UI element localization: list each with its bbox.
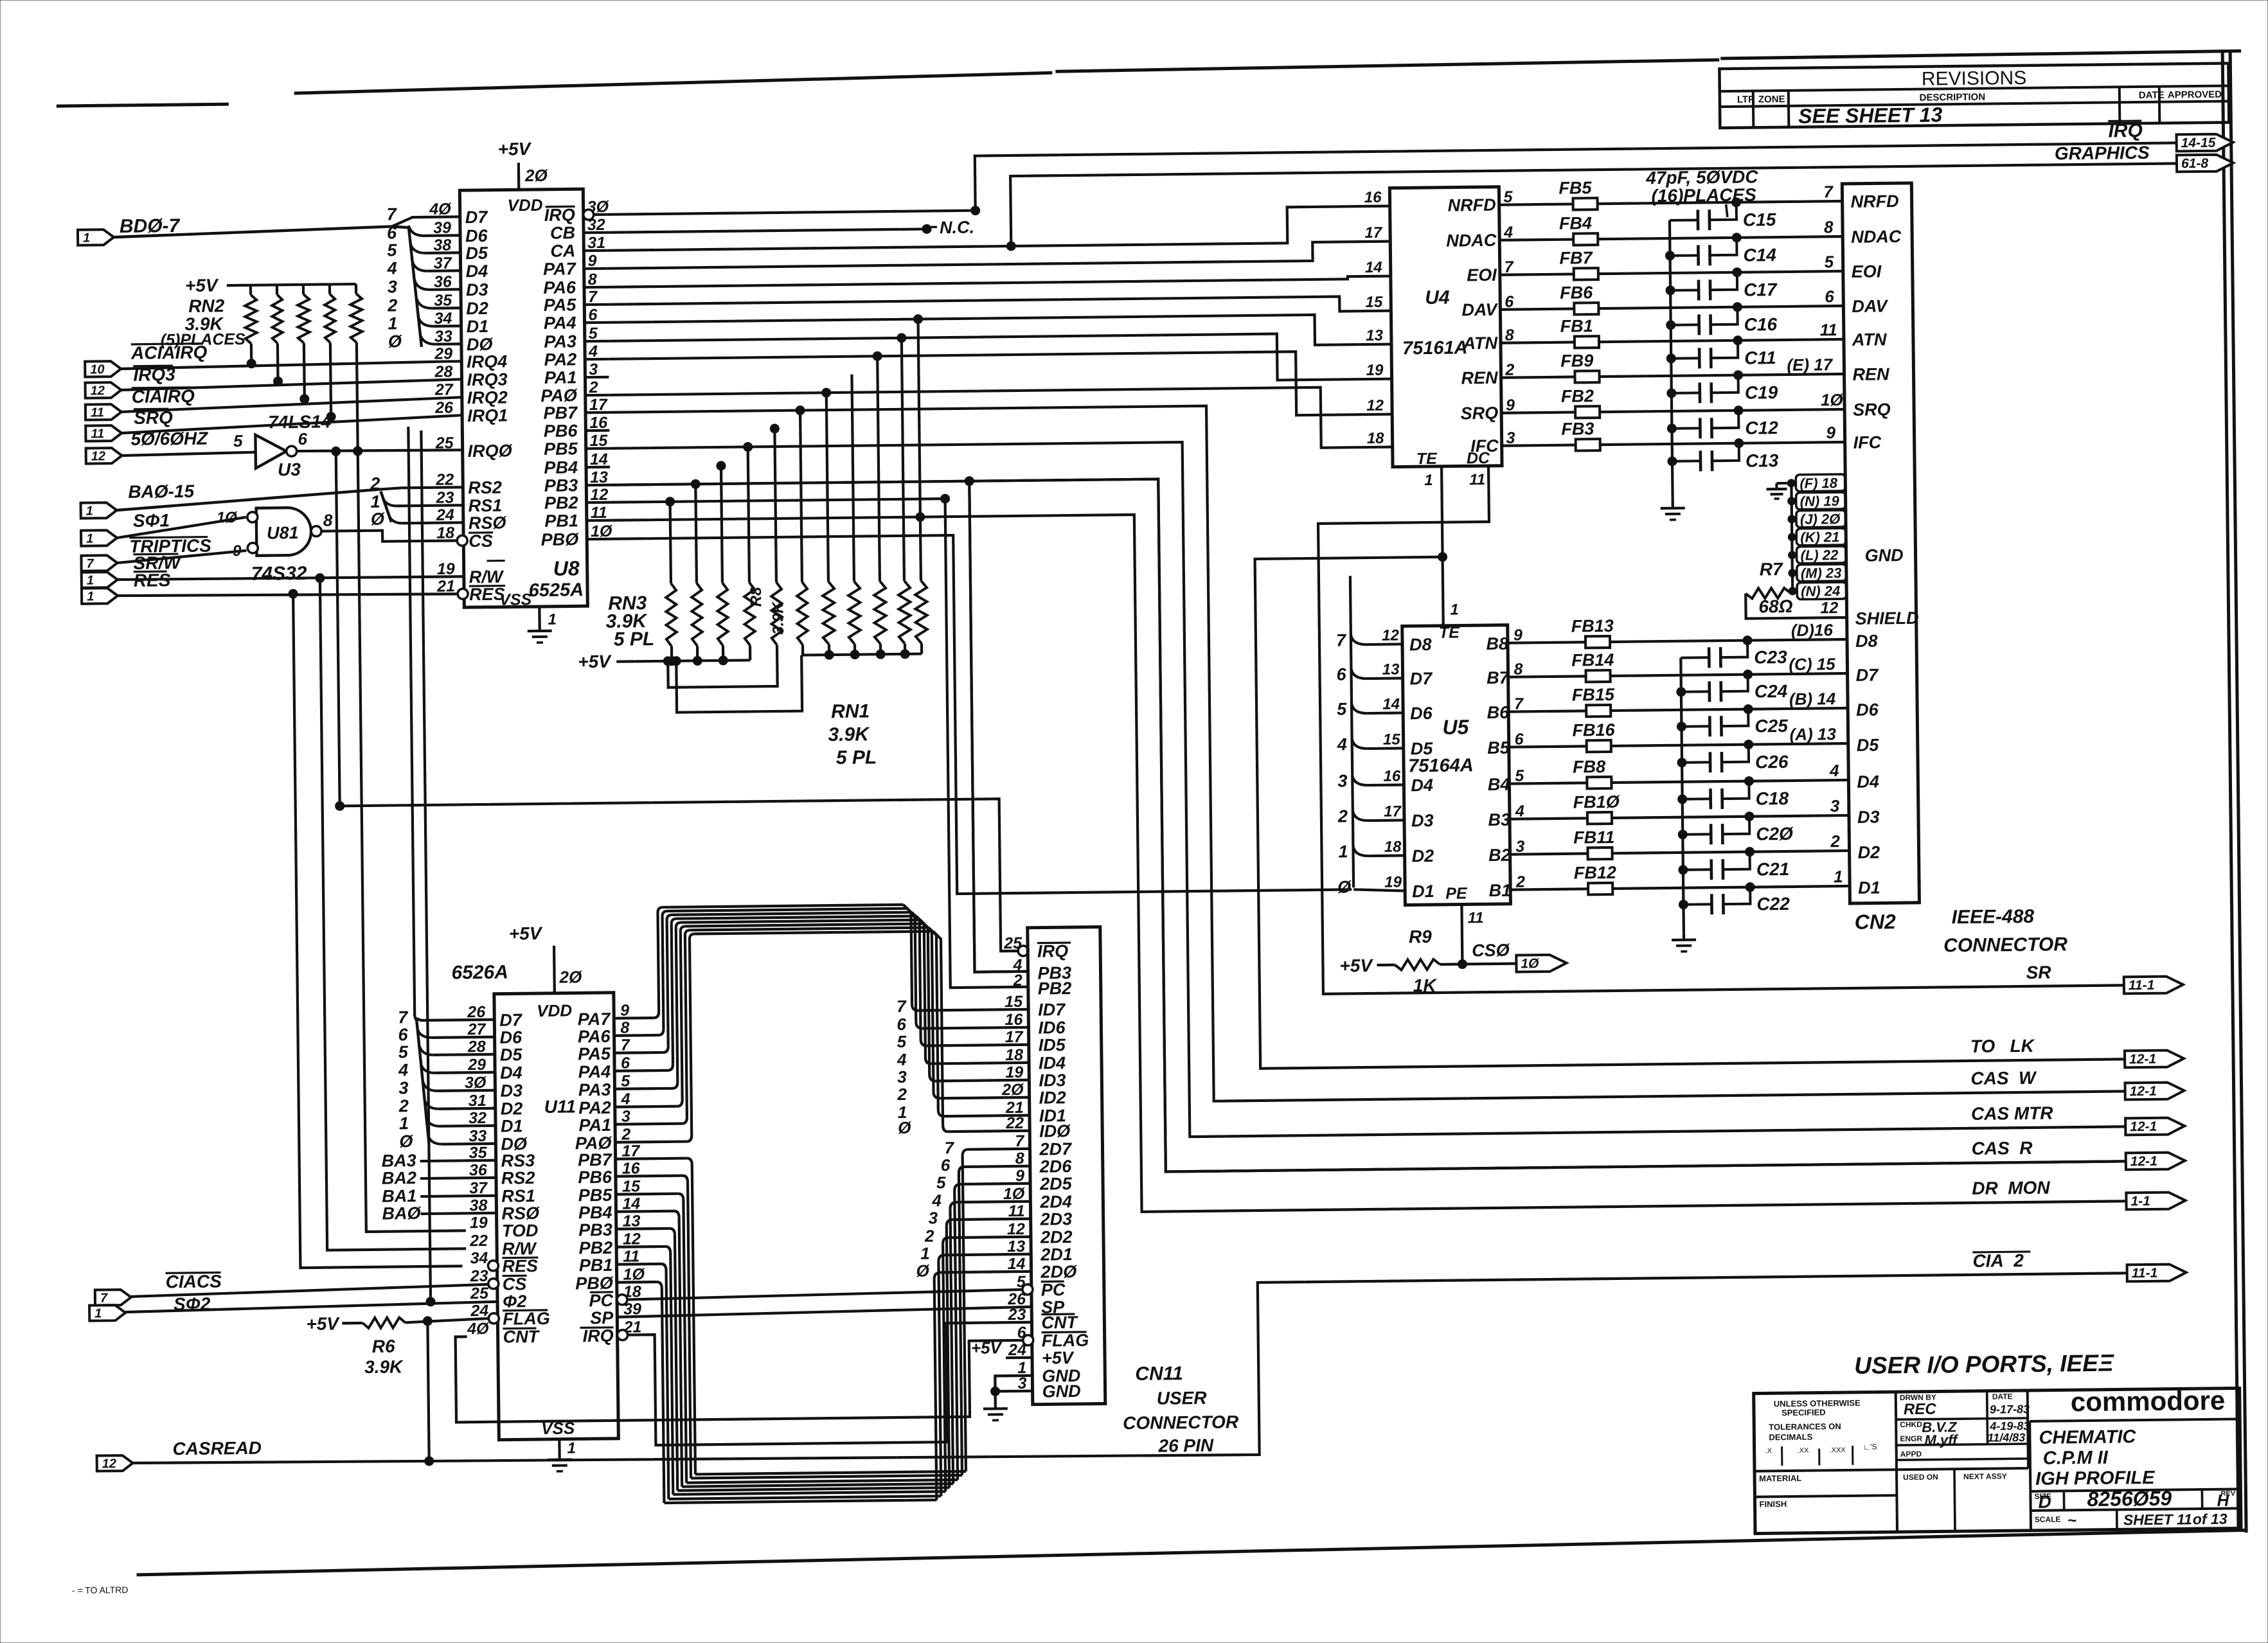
svg-text:C15: C15 xyxy=(1743,209,1776,230)
capacitor C24 xyxy=(1681,690,1710,693)
svg-text:26: 26 xyxy=(434,398,454,416)
svg-text:FB8: FB8 xyxy=(1573,757,1605,777)
svg-text:DESCRIPTION: DESCRIPTION xyxy=(1920,92,1986,103)
svg-text:.XX: .XX xyxy=(1798,1447,1810,1455)
wire PA6 to U4 EOI pin 14 xyxy=(608,276,1391,287)
svg-text:11-1: 11-1 xyxy=(2129,978,2155,993)
svg-text:ID7: ID7 xyxy=(1038,1000,1066,1019)
svg-text:12: 12 xyxy=(1382,627,1400,644)
svg-text:VDD: VDD xyxy=(507,195,542,215)
wire U11 IRQ to CN11 CNT xyxy=(627,1322,1033,1446)
svg-text:DR MON: DR MON xyxy=(1972,1178,2050,1198)
svg-text:CIAIRQ: CIAIRQ xyxy=(132,386,195,407)
svg-text:FB3: FB3 xyxy=(1561,419,1594,439)
title block tolerance box xyxy=(1896,1392,1897,1532)
svg-text:RS3: RS3 xyxy=(501,1151,535,1171)
svg-text:C2Ø: C2Ø xyxy=(1756,824,1794,844)
svg-text:(C) 15: (C) 15 xyxy=(1789,654,1835,674)
svg-text:1: 1 xyxy=(548,611,557,628)
svg-text:25: 25 xyxy=(435,434,454,452)
svg-text:~: ~ xyxy=(2067,1512,2076,1529)
wire PB3 to CAS R net and CN11 PB3 xyxy=(610,468,2126,1177)
net flag 50/60HZ (sheet 12) xyxy=(86,448,122,464)
wire PA0 to U4 IFC pin 18 xyxy=(609,387,1393,456)
ferrite bead FB10 xyxy=(1510,818,1587,819)
svg-text:C17: C17 xyxy=(1744,280,1778,300)
pull-up resistor RN1 column 11 xyxy=(918,319,921,581)
svg-text:∟'S: ∟'S xyxy=(1863,1443,1877,1452)
wire TRIPTICS to U81 pin 9 xyxy=(117,551,246,563)
svg-text:D: D xyxy=(2038,1492,2051,1512)
svg-text:R9: R9 xyxy=(1409,927,1433,946)
svg-text:PC: PC xyxy=(1041,1280,1066,1299)
capacitor C20 xyxy=(1683,833,1711,835)
wire CIAIRQ to U8 pin 27 xyxy=(121,397,461,412)
ground symbol at CN2 GND cluster xyxy=(1776,482,1791,484)
svg-text:(5)PLACES: (5)PLACES xyxy=(161,330,246,349)
svg-text:IGH PROFILE: IGH PROFILE xyxy=(2035,1468,2156,1489)
ferrite bead FB16 xyxy=(1509,746,1587,747)
svg-text:FB1Ø: FB1Ø xyxy=(1573,792,1620,812)
svg-text:1: 1 xyxy=(1424,472,1433,489)
svg-text:(B) 14: (B) 14 xyxy=(1789,689,1836,709)
wire RN2-3 to IRQ2 net xyxy=(303,343,306,399)
svg-text:ATN: ATN xyxy=(1462,333,1497,353)
svg-text:PB1: PB1 xyxy=(544,511,578,531)
svg-text:SP: SP xyxy=(590,1308,614,1328)
wire SRQ to U8 pin 26 xyxy=(121,415,461,433)
svg-text:CNT: CNT xyxy=(503,1327,540,1347)
net flag CAS MTR to sheet 12-1 xyxy=(2125,1117,2184,1135)
wire U11 PA3 to CN11 ID3 xyxy=(614,1087,672,1090)
svg-text:CIACS: CIACS xyxy=(166,1271,222,1292)
svg-text:APPROVED: APPROVED xyxy=(2168,89,2222,101)
commodore logo text xyxy=(2027,1390,2028,1391)
svg-text:(J) 2Ø: (J) 2Ø xyxy=(1800,511,1841,528)
svg-text:6526A: 6526A xyxy=(451,962,508,984)
svg-text:PA2: PA2 xyxy=(578,1098,611,1118)
net flag SR to sheet 11-1 xyxy=(2124,976,2183,993)
ferrite bead FB5 xyxy=(1573,198,1598,209)
wire U11 PA7 to CN11 ID7 xyxy=(614,1017,654,1020)
svg-text:12: 12 xyxy=(91,449,105,463)
svg-text:D5: D5 xyxy=(1411,739,1434,758)
junction IRQ0 to CN11 IRQ xyxy=(332,447,341,456)
capacitor C13 xyxy=(1672,459,1701,462)
svg-text:FB7: FB7 xyxy=(1559,248,1593,268)
svg-text:D2: D2 xyxy=(501,1099,523,1118)
svg-text:19: 19 xyxy=(1366,362,1384,379)
wire CASREAD across bottom to CIA line xyxy=(131,1273,2129,1467)
svg-text:BA1: BA1 xyxy=(382,1186,416,1206)
wire PA5 to U4 DAV pin 15 xyxy=(608,296,1391,319)
svg-text:CAS W: CAS W xyxy=(1970,1068,2037,1088)
svg-text:USED ON: USED ON xyxy=(1903,1473,1938,1482)
svg-text:1: 1 xyxy=(83,231,90,245)
svg-text:PA4: PA4 xyxy=(578,1062,611,1082)
svg-text:+5V: +5V xyxy=(185,275,219,296)
svg-text:SΦ1: SΦ1 xyxy=(133,510,170,531)
svg-text:2Ø: 2Ø xyxy=(558,967,583,986)
net flag BA0-15 (sheet 1) xyxy=(81,502,117,519)
svg-text:C18: C18 xyxy=(1756,788,1789,809)
svg-text:11/4/83: 11/4/83 xyxy=(1987,1431,2025,1444)
svg-text:(M) 23: (M) 23 xyxy=(1801,565,1842,582)
svg-text:18: 18 xyxy=(1384,838,1402,855)
svg-text:23: 23 xyxy=(470,1267,488,1285)
svg-text:USER: USER xyxy=(1157,1388,1208,1408)
CN11 PC pin bubble xyxy=(1022,1284,1033,1295)
net flag CASREAD (sheet 12) xyxy=(97,1455,133,1471)
svg-text:GND: GND xyxy=(1042,1381,1080,1401)
svg-text:2: 2 xyxy=(924,1226,934,1245)
wire U3 output to U8 pin 25 IRQ0 xyxy=(297,449,461,452)
svg-text:11: 11 xyxy=(1468,909,1484,927)
wire U11 SP to CN11 SP xyxy=(617,1307,1031,1317)
svg-text:FB11: FB11 xyxy=(1573,828,1614,848)
RN3 +5V rail xyxy=(634,660,750,661)
svg-text:3: 3 xyxy=(929,1208,938,1227)
capacitor C26 xyxy=(1682,761,1710,763)
wire U11 PA4 to CN11 ID4 xyxy=(614,1069,668,1072)
svg-text:C11: C11 xyxy=(1744,348,1776,368)
ferrite bead FB7 xyxy=(1574,268,1598,280)
svg-text:5: 5 xyxy=(387,240,397,260)
svg-text:8: 8 xyxy=(323,510,333,529)
svg-text:BA2: BA2 xyxy=(382,1168,416,1188)
svg-text:C23: C23 xyxy=(1754,647,1787,668)
svg-text:PB4: PB4 xyxy=(578,1203,612,1223)
capacitor C11 xyxy=(1671,357,1699,359)
svg-text:U3: U3 xyxy=(278,459,301,479)
svg-text:5: 5 xyxy=(936,1173,946,1192)
svg-text:D1: D1 xyxy=(1858,878,1880,897)
svg-text:D3: D3 xyxy=(500,1081,522,1100)
svg-text:PA5: PA5 xyxy=(578,1044,611,1064)
U11 D bus fan from vertical trunk xyxy=(415,1017,429,1142)
svg-text:PB7: PB7 xyxy=(578,1150,613,1170)
svg-text:Φ2: Φ2 xyxy=(503,1292,527,1311)
svg-text:D5: D5 xyxy=(465,244,488,263)
svg-text:19: 19 xyxy=(1384,873,1402,891)
svg-text:DECIMALS: DECIMALS xyxy=(1769,1432,1812,1443)
ferrite bead FB4 xyxy=(1573,233,1598,245)
svg-text:RES: RES xyxy=(134,570,171,591)
svg-text:SRQ: SRQ xyxy=(1853,400,1891,420)
svg-text:(D)16: (D)16 xyxy=(1791,620,1834,640)
svg-text:11: 11 xyxy=(1820,320,1837,339)
wire vertical crossing to S02 line xyxy=(421,431,431,1302)
capacitor C21 xyxy=(1683,868,1711,871)
svg-text:ZONE: ZONE xyxy=(1758,94,1785,105)
svg-text:5: 5 xyxy=(1337,699,1347,718)
svg-text:SEE SHEET 13: SEE SHEET 13 xyxy=(1798,103,1943,127)
svg-text:RS2: RS2 xyxy=(501,1168,535,1188)
svg-text:CONNECTOR: CONNECTOR xyxy=(1943,934,2067,956)
svg-text:1: 1 xyxy=(86,531,93,546)
CN11 IRQ pin bubble xyxy=(1018,946,1028,956)
pull-up resistor RN1 column 8 xyxy=(852,375,853,582)
wire 50/60HZ to U3 input xyxy=(122,452,256,456)
svg-text:(K) 21: (K) 21 xyxy=(1800,529,1839,546)
capacitor C22 xyxy=(1683,903,1711,905)
svg-text:CAS R: CAS R xyxy=(1971,1138,2033,1159)
svg-text:PB1: PB1 xyxy=(579,1256,613,1275)
svg-text:SPECIFIED: SPECIFIED xyxy=(1781,1407,1826,1417)
revisions table xyxy=(1719,63,2229,128)
ic U11 6526A CIA xyxy=(494,993,618,1440)
svg-text:26 PIN: 26 PIN xyxy=(1157,1435,1214,1456)
svg-text:1: 1 xyxy=(1450,601,1459,619)
svg-text:commodore: commodore xyxy=(2071,1385,2226,1417)
svg-text:CN11: CN11 xyxy=(1135,1363,1183,1385)
net flag IRQ3 (sheet 12) xyxy=(85,382,121,398)
wire U11 PB3 to CN11 2D3 xyxy=(616,1227,670,1230)
svg-text:D1: D1 xyxy=(501,1116,523,1135)
svg-text:CNT: CNT xyxy=(1041,1313,1078,1333)
svg-text:CN2: CN2 xyxy=(1855,910,1897,934)
svg-text:PA5: PA5 xyxy=(544,295,577,315)
pull-up resistor RN1 column 9 xyxy=(877,356,880,581)
wire GRAPHICS to top right xyxy=(1010,163,2177,246)
svg-text:D3: D3 xyxy=(1857,807,1880,826)
svg-text:SR: SR xyxy=(2026,963,2051,982)
svg-text:IRQ2: IRQ2 xyxy=(467,388,508,408)
svg-text:19: 19 xyxy=(470,1214,488,1232)
svg-text:2D1: 2D1 xyxy=(1040,1245,1073,1265)
svg-text:12: 12 xyxy=(1366,397,1384,414)
svg-text:IFC: IFC xyxy=(1853,432,1882,452)
svg-text:ID2: ID2 xyxy=(1039,1088,1066,1107)
svg-text:11: 11 xyxy=(91,405,104,420)
wire PA7 to U4 NDAC pin 17 xyxy=(607,242,1390,269)
pull-up resistor RN1 column 7 xyxy=(826,393,828,582)
U11 FLAG pin bubble xyxy=(488,1313,499,1324)
net flag CIAIRQ (sheet 11) xyxy=(85,404,121,420)
wire PB3 to CAS R net and CN11 PB3 xyxy=(610,468,2126,1177)
junction IRQ0 to TOD xyxy=(353,447,362,456)
svg-text:SHIELD: SHIELD xyxy=(1855,608,1918,628)
svg-text:NEXT ASSY: NEXT ASSY xyxy=(1963,1471,2007,1481)
svg-text:24: 24 xyxy=(470,1302,488,1320)
svg-text:12: 12 xyxy=(102,1457,116,1471)
pull-up resistor RN3 column 4 xyxy=(748,447,749,582)
svg-text:ID6: ID6 xyxy=(1038,1018,1066,1037)
svg-text:D4: D4 xyxy=(466,262,488,281)
wire TE branch to TOD CLK net xyxy=(1438,553,1447,562)
svg-text:22: 22 xyxy=(469,1232,488,1250)
wire S01 to U81 pin 10 xyxy=(117,517,246,538)
svg-text:C12: C12 xyxy=(1745,418,1778,438)
pull-up resistor RN1 column 10 xyxy=(902,338,904,581)
svg-text:D2: D2 xyxy=(1857,842,1880,862)
svg-text:NDAC: NDAC xyxy=(1446,231,1497,251)
U11 RES pin bubble xyxy=(488,1261,498,1271)
svg-text:1: 1 xyxy=(1834,867,1843,886)
svg-text:D7: D7 xyxy=(499,1010,523,1029)
svg-text:(A) 13: (A) 13 xyxy=(1789,724,1836,744)
pull-up resistor RN3 column 1 xyxy=(670,502,671,583)
wire 50/60HZ down to U11 TOD xyxy=(358,450,466,1232)
svg-text:25: 25 xyxy=(470,1284,489,1302)
svg-text:C.P.M II: C.P.M II xyxy=(2043,1448,2109,1469)
svg-text:D8: D8 xyxy=(1409,635,1432,654)
svg-text:CHKD: CHKD xyxy=(1900,1420,1922,1429)
svg-text:5Ø/6ØHZ: 5Ø/6ØHZ xyxy=(130,429,208,449)
U11 CS pin bubble xyxy=(488,1279,499,1289)
svg-text:PB3: PB3 xyxy=(544,475,578,495)
svg-text:D6: D6 xyxy=(465,226,488,245)
ferrite bead FB12 xyxy=(1510,889,1588,889)
svg-text:D4: D4 xyxy=(1411,776,1433,795)
svg-text:C24: C24 xyxy=(1755,681,1788,702)
wire RN2-4 to IRQ1 net xyxy=(330,342,331,416)
svg-text:Ø: Ø xyxy=(916,1261,930,1280)
svg-text:28: 28 xyxy=(434,362,452,380)
svg-text:5: 5 xyxy=(1824,252,1834,271)
CN11 FLAG pin bubble xyxy=(1023,1335,1033,1345)
net flag CIACS (sheet 7) xyxy=(95,1290,131,1306)
svg-text:6: 6 xyxy=(1825,287,1834,306)
svg-text:11: 11 xyxy=(91,427,104,441)
capacitor C14 xyxy=(1670,254,1699,256)
svg-text:18: 18 xyxy=(436,524,454,542)
svg-text:19: 19 xyxy=(437,560,455,578)
svg-text:15: 15 xyxy=(1383,731,1401,748)
svg-text:D7: D7 xyxy=(465,208,489,227)
svg-text:2D5: 2D5 xyxy=(1039,1174,1073,1194)
svg-text:IRQ: IRQ xyxy=(1037,941,1068,961)
svg-text:+5V: +5V xyxy=(1042,1348,1075,1368)
wire SR/W down to U11 R/W xyxy=(320,576,466,1250)
svg-text:2DØ: 2DØ xyxy=(1040,1262,1077,1282)
svg-text:1: 1 xyxy=(567,1439,576,1457)
ferrite bead FB2 xyxy=(1575,406,1600,418)
svg-text:VDD: VDD xyxy=(537,1000,572,1020)
wire CS0 to flag xyxy=(1462,962,1515,965)
svg-text:R/W: R/W xyxy=(502,1239,537,1259)
wire PB7 to CAS W net xyxy=(609,396,2125,1107)
wire U11 PB6 to CN11 2D6 xyxy=(616,1176,683,1177)
svg-text:3.9K: 3.9K xyxy=(828,724,870,745)
wire U11 PC to CN11 PC xyxy=(627,1290,1022,1300)
svg-text:FLAG: FLAG xyxy=(1042,1331,1089,1351)
svg-text:USER I/O PORTS, IEEΞ: USER I/O PORTS, IEEΞ xyxy=(1854,1350,2114,1379)
net flag IRQ to sheet 14-15 xyxy=(2177,134,2233,151)
svg-text:2: 2 xyxy=(398,1096,409,1115)
svg-text:RSØ: RSØ xyxy=(469,513,507,533)
svg-text:PB5: PB5 xyxy=(544,439,578,459)
svg-text:GRAPHICS: GRAPHICS xyxy=(2055,143,2150,164)
svg-text:1K: 1K xyxy=(1413,975,1438,995)
svg-text:29: 29 xyxy=(434,344,452,362)
svg-text:17: 17 xyxy=(1384,803,1402,820)
title block drawn/checked column xyxy=(2028,1390,2028,1468)
ferrite bead FB11 xyxy=(1510,853,1588,854)
RN1 +5V rail xyxy=(801,654,922,655)
svg-text:RS2: RS2 xyxy=(468,478,502,498)
svg-text:Ø: Ø xyxy=(399,1132,413,1151)
svg-text:3.9K: 3.9K xyxy=(769,601,787,635)
svg-text:SRQ: SRQ xyxy=(1460,404,1498,423)
svg-text:75161A: 75161A xyxy=(1402,337,1468,359)
wire PB0 to U5 D1 / zero line xyxy=(611,531,1352,897)
connector CN11 user port 26 pin xyxy=(1028,927,1105,1405)
wire CB to N.C. xyxy=(607,229,927,232)
wire SR/W to U8 pin 19 xyxy=(118,576,463,580)
svg-text:4: 4 xyxy=(897,1050,907,1069)
sheet right border line xyxy=(2222,53,2238,1531)
svg-text:SRQ: SRQ xyxy=(134,407,173,428)
svg-text:U11: U11 xyxy=(544,1096,576,1117)
svg-text:PBØ: PBØ xyxy=(575,1274,614,1293)
svg-text:+5V: +5V xyxy=(497,139,531,159)
svg-text:FB9: FB9 xyxy=(1560,351,1593,371)
svg-text:RES: RES xyxy=(502,1256,538,1276)
title block outer box xyxy=(1754,1388,2241,1533)
svg-text:2D7: 2D7 xyxy=(1039,1139,1073,1159)
ferrite bead FB8 xyxy=(1509,783,1587,783)
wire ACIAIRQ to U8 pin 29 xyxy=(121,362,445,369)
svg-text:2Ø: 2Ø xyxy=(524,166,549,185)
wire U11 PA1 to CN11 ID1 xyxy=(615,1124,682,1124)
svg-text:Ø: Ø xyxy=(1337,877,1352,896)
svg-text:2: 2 xyxy=(1013,972,1022,990)
svg-text:C16: C16 xyxy=(1744,314,1778,335)
svg-text:FB12: FB12 xyxy=(1574,863,1616,883)
svg-text:12-1: 12-1 xyxy=(2130,1154,2157,1169)
svg-text:7: 7 xyxy=(100,1291,108,1305)
svg-text:CSØ: CSØ xyxy=(1472,941,1510,961)
net flag BD0-7 (sheet 1) xyxy=(78,229,114,245)
svg-text:1: 1 xyxy=(370,492,380,511)
svg-text:D4: D4 xyxy=(500,1063,522,1082)
junction PB1 at pullup column xyxy=(916,512,925,521)
capacitor C25 xyxy=(1681,725,1710,727)
ferrite bead FB3 xyxy=(1576,439,1600,450)
wire U5 PE to R9/CS0 xyxy=(1461,904,1462,964)
pull-up resistor R8 column 5 xyxy=(774,429,776,582)
wire U11 PA2 to CN11 ID2 xyxy=(615,1106,677,1107)
svg-text:DC: DC xyxy=(1467,449,1490,467)
svg-text:5 PL: 5 PL xyxy=(836,747,877,768)
net flag GRAPHICS to sheet 61-8 xyxy=(2177,154,2233,172)
svg-text:+5V: +5V xyxy=(578,652,612,672)
svg-text:C21: C21 xyxy=(1756,859,1790,880)
svg-text:1: 1 xyxy=(94,1306,102,1320)
svg-text:1: 1 xyxy=(1338,842,1348,861)
svg-text:4: 4 xyxy=(398,1060,408,1079)
svg-text:PB6: PB6 xyxy=(544,421,578,441)
svg-text:16: 16 xyxy=(1364,189,1382,206)
svg-text:5: 5 xyxy=(897,1032,907,1051)
svg-text:3: 3 xyxy=(897,1067,907,1087)
svg-text:RSØ: RSØ xyxy=(501,1203,540,1223)
svg-text:SHEET 11: SHEET 11 xyxy=(2123,1511,2192,1528)
wire RN2-1 to ACIAIRQ net xyxy=(250,344,253,364)
svg-text:12: 12 xyxy=(1820,599,1838,617)
svg-text:9: 9 xyxy=(1826,423,1835,442)
svg-text:B4: B4 xyxy=(1488,775,1510,794)
svg-text:1Ø: 1Ø xyxy=(217,509,238,526)
svg-text:1Ø: 1Ø xyxy=(1821,390,1844,409)
svg-text:D6: D6 xyxy=(1856,700,1879,719)
svg-text:7: 7 xyxy=(86,556,94,571)
wire RN2-2 to IRQ3 net xyxy=(276,343,280,381)
svg-text:16: 16 xyxy=(1383,767,1401,785)
ic U5 75164A GPIB transceiver xyxy=(1402,625,1511,905)
svg-text:34: 34 xyxy=(470,1249,488,1267)
